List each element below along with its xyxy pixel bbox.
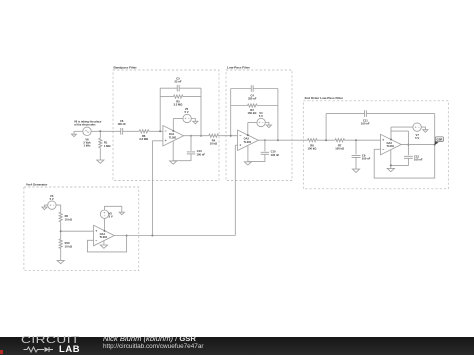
wire R7 to OA3	[345, 139, 381, 141]
node Vref rail to OA1	[151, 235, 153, 237]
wire C11 feedback to output	[434, 114, 436, 145]
ground below OA4	[100, 245, 107, 248]
wire to C11	[326, 113, 364, 115]
node OA3 out/C12	[407, 144, 409, 146]
svg-text:5 V: 5 V	[50, 197, 54, 201]
resistor R7	[335, 139, 345, 142]
wire C12 to ground rail	[391, 158, 408, 165]
svg-text:C13: C13	[197, 149, 202, 153]
svg-text:3.3 MΩ: 3.3 MΩ	[139, 137, 149, 141]
wire C13 to ground rail	[173, 154, 191, 161]
wire OA1 V- to ground rail	[172, 141, 174, 161]
wire LP feedback right vertical	[277, 89, 279, 141]
ground below R10	[57, 260, 64, 263]
wire R1 to ground	[99, 148, 101, 160]
op-amp OA2	[238, 130, 259, 151]
wire divider to OA4 in+	[61, 230, 94, 232]
CircuitLab logo LAB	[59, 343, 80, 354]
svg-text:5 V: 5 V	[184, 110, 188, 114]
wire V5 to ground	[191, 119, 195, 122]
footer red accent	[0, 350, 3, 354]
voltage source V6 (AC electrodes)	[83, 127, 91, 135]
capacitor C4	[251, 85, 253, 92]
wire OA2 V+ vertical	[247, 123, 249, 136]
node V6/R1	[99, 130, 101, 132]
svg-text:OA4: OA4	[100, 232, 106, 236]
wire R10 to ground	[60, 249, 62, 261]
svg-text:100 nF: 100 nF	[197, 153, 206, 157]
capacitor C11	[364, 110, 366, 117]
wire V7 to OA3	[391, 126, 413, 128]
svg-text:100 nF: 100 nF	[271, 153, 280, 157]
voltage source V5	[183, 114, 191, 122]
wire Vref riser to OA1	[151, 141, 153, 236]
wire OA2 V- to ground rail	[247, 146, 249, 162]
wire to C4	[231, 88, 252, 90]
ground at V7	[423, 130, 428, 133]
capacitor C13	[187, 152, 195, 154]
resistor R2	[59, 212, 62, 222]
svg-text:TL081: TL081	[100, 235, 108, 239]
ground at V3	[42, 207, 47, 210]
wire V7 to ground	[421, 127, 425, 130]
ground below R1	[97, 160, 104, 163]
resistor R6	[139, 130, 149, 133]
wire to OA1 in+	[152, 140, 163, 142]
footer bar	[0, 337, 474, 355]
wire feedback right vertical	[200, 88, 202, 136]
svg-text:TL081: TL081	[244, 140, 252, 144]
ground at V6	[72, 134, 77, 137]
node OA1 in-	[159, 130, 161, 132]
subcircuit box: Vref Generator	[24, 183, 139, 271]
wire OA3 in- stub	[374, 148, 380, 150]
wire LP feedback left vertical	[230, 89, 232, 136]
svg-text:2nd Order Low-Pass Filter: 2nd Order Low-Pass Filter	[305, 96, 344, 100]
wire to OA2 in+	[235, 144, 237, 146]
wire R8 to R7	[317, 139, 335, 141]
svg-text:of the electrodes: of the electrodes	[74, 123, 96, 127]
svg-text:10 kΩ: 10 kΩ	[65, 218, 73, 222]
wire C5 to right vertical	[179, 87, 201, 89]
node GSR output	[434, 144, 436, 146]
wire C9 to ground	[355, 158, 357, 170]
svg-text:5 V: 5 V	[109, 215, 113, 219]
node divider tap	[60, 230, 62, 232]
wire C11 to output vertical	[366, 113, 434, 115]
capacitor C12	[404, 156, 413, 158]
node OA1 V+ pin	[172, 130, 174, 132]
voltage source V2	[100, 210, 108, 218]
wire to R3	[231, 105, 248, 107]
wire Vref rail	[114, 235, 235, 237]
svg-text:10 kΩ: 10 kΩ	[65, 244, 73, 248]
wire to R5	[160, 96, 173, 98]
svg-text:1 MΩ: 1 MΩ	[104, 144, 111, 148]
capacitor C6	[121, 128, 123, 135]
svg-text:OA1: OA1	[169, 132, 175, 136]
svg-text:160 kΩ: 160 kΩ	[248, 111, 258, 115]
wire R2 to R10	[60, 222, 62, 239]
wire to R1	[99, 131, 101, 138]
wire gnd to V6	[74, 130, 83, 132]
resistor R10	[59, 239, 62, 249]
node OA4 output	[126, 235, 128, 237]
wire OA1 output	[184, 135, 209, 137]
wire OA3 output	[401, 144, 435, 146]
wire R5 to right vertical	[183, 96, 201, 98]
node OA4 V+ pin	[104, 230, 106, 232]
wire OA1 V+ vertical	[172, 119, 174, 131]
ground at V2	[119, 212, 124, 215]
voltage source V4	[257, 118, 265, 126]
wire R4 to OA2	[218, 135, 237, 137]
resistor R8	[308, 139, 318, 142]
wire to C10	[264, 140, 266, 151]
svg-text:22 nF: 22 nF	[174, 80, 181, 84]
svg-text:Bandpass Filter: Bandpass Filter	[114, 66, 138, 70]
wire C6 to R6	[123, 130, 140, 132]
svg-text:5 V: 5 V	[259, 114, 263, 118]
wire OA3 feedback loop	[374, 145, 435, 179]
wire to C13	[190, 136, 192, 151]
wire OA3 V- to ground	[390, 150, 392, 168]
ground below OA1	[170, 161, 177, 164]
svg-text:Low-Pass Filter: Low-Pass Filter	[227, 66, 251, 70]
svg-text:3.3 MΩ: 3.3 MΩ	[174, 103, 184, 107]
svg-text:GSR: GSR	[436, 138, 442, 142]
subcircuit box: 2nd Order Low-Pass Filter	[303, 96, 448, 189]
capacitor C10	[261, 152, 269, 154]
node R7/C9	[355, 139, 357, 141]
node OA2 V+ pin	[247, 134, 249, 136]
footer author line	[103, 334, 196, 343]
svg-text:OA2: OA2	[244, 136, 250, 140]
voltage source V7	[413, 123, 421, 131]
subcircuit box: Low-Pass Filter	[226, 66, 292, 181]
wire to C5	[160, 87, 177, 89]
wire V2 to OA4 V+	[104, 218, 106, 231]
CircuitLab logo text	[21, 335, 80, 346]
svg-text:10 kΩ: 10 kΩ	[210, 141, 218, 145]
svg-text:OA3: OA3	[387, 141, 393, 145]
wire V4 to OA2 V+	[248, 122, 257, 124]
ground at V4	[266, 125, 271, 128]
node OA1 out/C13	[190, 135, 192, 137]
wire OA4 V- stub	[103, 241, 105, 245]
wire V2 to ground	[105, 206, 122, 212]
wire C10 to ground rail	[248, 154, 265, 161]
op-amp OA1	[163, 126, 184, 147]
node OA3 V+ pin	[390, 139, 392, 141]
capacitor C5	[177, 85, 179, 92]
svg-text:Vref Generator: Vref Generator	[26, 183, 48, 187]
wire V5 to OA1 V+	[173, 118, 183, 120]
wire Vref riser to OA2	[234, 145, 236, 235]
svg-text:100 nF: 100 nF	[117, 122, 126, 126]
wire R6 to OA1 inverting input	[149, 130, 163, 132]
wire V3 to R2	[56, 205, 61, 212]
node OA2 in-	[230, 135, 232, 137]
svg-text:100 nF: 100 nF	[362, 157, 371, 161]
svg-text:C10: C10	[271, 150, 276, 154]
wire R3 to right vertical	[257, 105, 278, 107]
capacitor C9	[352, 156, 361, 158]
resistor R5	[173, 95, 183, 98]
svg-text:100 kΩ: 100 kΩ	[335, 146, 345, 150]
node OA2 out/C10	[264, 139, 266, 141]
ground below OA2	[244, 162, 251, 165]
voltage source V3	[48, 201, 56, 209]
svg-text:R10: R10	[65, 241, 70, 245]
footer url line	[103, 343, 204, 350]
wire OA3 upper feedback horizontal	[391, 130, 408, 132]
wire to C9	[355, 140, 357, 154]
node OA1 output/feedback	[200, 135, 202, 137]
node R8/R7 junction	[325, 139, 327, 141]
node OA3 ground rail	[390, 164, 392, 166]
CircuitLab logo glyph	[0, 337, 100, 355]
ground below OA3	[387, 168, 394, 171]
wire V6 ground stub	[73, 131, 75, 134]
wire feedback left vertical	[159, 88, 161, 131]
op-amp OA4	[94, 225, 115, 246]
svg-text:TL081: TL081	[387, 144, 395, 148]
svg-text:100 nF: 100 nF	[414, 158, 423, 162]
resistor R4	[209, 134, 219, 137]
svg-text:R2: R2	[65, 214, 69, 218]
svg-text:5 V: 5 V	[415, 136, 419, 140]
wire V4 to ground	[265, 123, 269, 126]
wire OA4 feedback loop	[87, 236, 126, 252]
output flag GSR	[435, 137, 444, 145]
wire C11 branch vertical	[325, 114, 327, 141]
svg-text:TL081: TL081	[169, 135, 177, 139]
node OA2 output/feedback	[277, 139, 279, 141]
ground below C9	[352, 169, 359, 172]
svg-text:330 nF: 330 nF	[248, 97, 257, 101]
op-amp OA3	[381, 134, 402, 155]
wire to C12	[407, 131, 409, 155]
resistor R1	[99, 138, 102, 148]
wire V6 to C6	[91, 130, 121, 132]
wire C4 to right vertical	[253, 88, 278, 90]
svg-text:100 nF: 100 nF	[361, 122, 370, 126]
subcircuit box: Bandpass Filter	[113, 66, 219, 181]
svg-text:100 kΩ: 100 kΩ	[308, 146, 318, 150]
svg-text:1 kHz: 1 kHz	[83, 144, 91, 148]
wire OA2 output to R8	[258, 139, 307, 141]
wire OA3 V+ vertical	[390, 127, 392, 139]
ground at V5	[193, 121, 198, 124]
wire V3 to ground	[44, 205, 47, 207]
resistor R3	[248, 104, 258, 107]
